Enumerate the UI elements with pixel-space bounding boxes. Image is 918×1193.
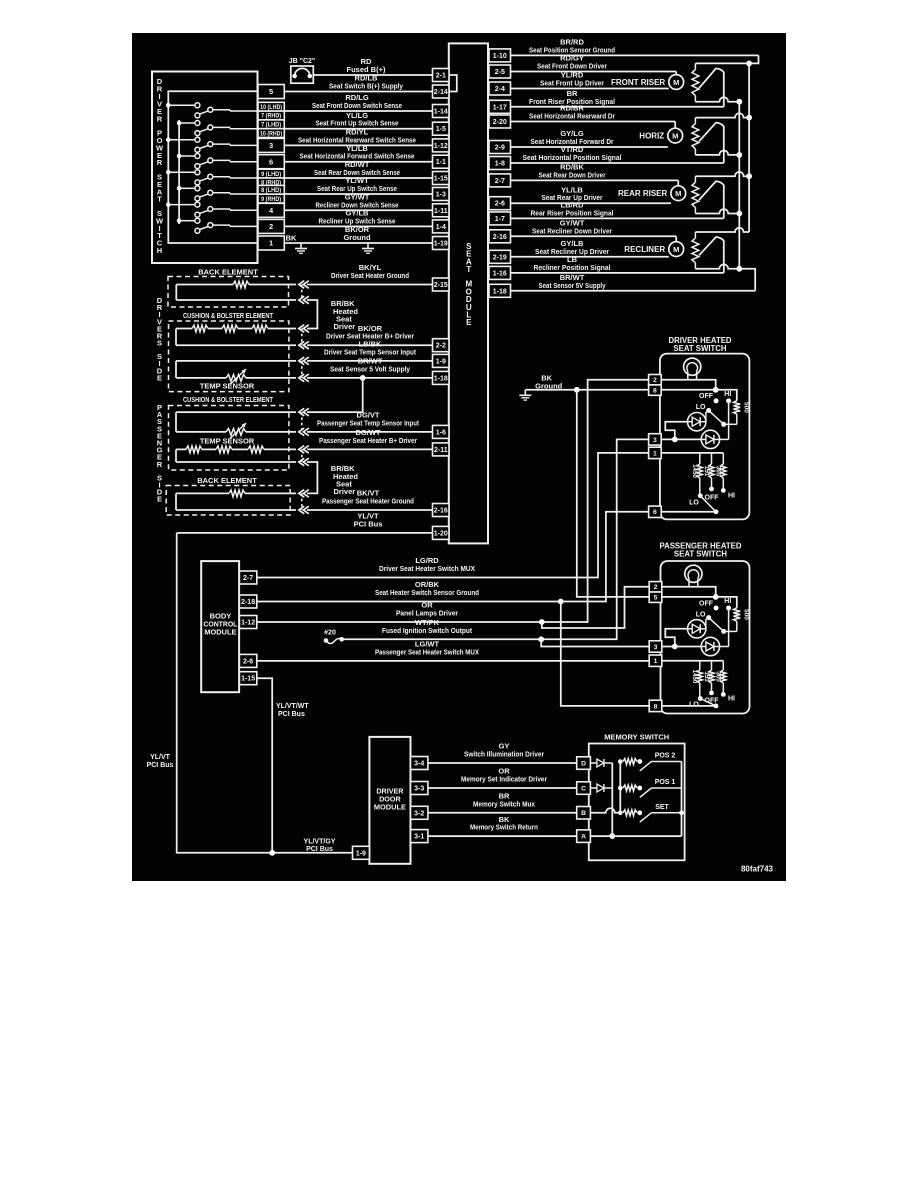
svg-text:M: M bbox=[673, 78, 679, 87]
passenger switch pin1 rail bbox=[662, 660, 724, 662]
junction sensor 5V bus bbox=[736, 99, 742, 272]
svg-text:Seat Horizontal Position Signa: Seat Horizontal Position Signal bbox=[523, 153, 622, 162]
seat module left pin 1-15 bbox=[433, 172, 450, 185]
wire RD/GY Seat Front Down Driver bbox=[511, 54, 677, 72]
svg-text:1-15: 1-15 bbox=[241, 676, 255, 683]
svg-text:Seat Front Down Driver: Seat Front Down Driver bbox=[537, 62, 607, 71]
driver back element box bbox=[168, 268, 289, 308]
switch pin 6 bbox=[258, 155, 284, 169]
passenger mux resistor 1450 bbox=[691, 661, 703, 699]
wire OR Panel Lamps Driver bbox=[257, 380, 649, 622]
connector arrows passenger back element bbox=[299, 490, 309, 498]
svg-text:Memory Set Indicator Driver: Memory Set Indicator Driver bbox=[461, 775, 547, 784]
svg-text:RECLINER: RECLINER bbox=[624, 245, 665, 254]
seat module left pin 2-1 bbox=[433, 69, 450, 82]
driver switch second LED bbox=[701, 430, 719, 448]
seat module right pin 1-8 bbox=[489, 157, 511, 170]
svg-text:1-1: 1-1 bbox=[436, 159, 446, 166]
wire YL/VT PCI bus vertical bbox=[147, 533, 353, 853]
svg-text:1: 1 bbox=[654, 658, 658, 665]
svg-text:2-20: 2-20 bbox=[493, 119, 507, 126]
passenger LED right lead bbox=[706, 618, 709, 629]
memory switch common rail bbox=[590, 762, 683, 837]
wire BR/RD Seat Position Sensor Ground bbox=[511, 38, 759, 56]
svg-text:CUSHION & BOLSTER ELEMENT: CUSHION & BOLSTER ELEMENT bbox=[183, 311, 273, 320]
wire BK ground to driver switch pin 8 bbox=[525, 389, 648, 391]
svg-text:1-5: 1-5 bbox=[436, 126, 446, 133]
svg-text:1450: 1450 bbox=[691, 670, 698, 684]
svg-text:2-6: 2-6 bbox=[495, 201, 505, 208]
svg-text:MODULE: MODULE bbox=[204, 628, 236, 637]
svg-text:E: E bbox=[157, 373, 162, 382]
svg-text:2-6: 2-6 bbox=[243, 658, 253, 665]
connector arrows passenger temp sensor bbox=[299, 408, 309, 416]
passenger switch pin8 internal wire bbox=[662, 705, 716, 707]
DDM pin 3-4 bbox=[411, 757, 428, 770]
driver door module box bbox=[369, 737, 410, 864]
wire LG/RD Driver Seat Heater Switch MUX bbox=[257, 453, 649, 578]
memory switch diode bus bbox=[611, 763, 613, 836]
motor M recliner bbox=[624, 242, 683, 257]
svg-text:2: 2 bbox=[269, 222, 273, 231]
svg-text:7 (LHD): 7 (LHD) bbox=[261, 122, 281, 129]
svg-text:Driver Seat Temp Sensor Input: Driver Seat Temp Sensor Input bbox=[324, 347, 416, 356]
svg-text:2-16: 2-16 bbox=[493, 234, 507, 241]
junction seat sensor 5V split bbox=[360, 375, 366, 381]
svg-text:Passenger Seat Heater B+ Drive: Passenger Seat Heater B+ Driver bbox=[319, 436, 417, 445]
svg-text:SEAT SWITCH: SEAT SWITCH bbox=[674, 549, 728, 558]
svg-text:HORIZ: HORIZ bbox=[639, 131, 664, 140]
svg-text:SEAT SWITCH: SEAT SWITCH bbox=[673, 344, 727, 353]
switch contact bus 2 bbox=[178, 120, 180, 224]
wire VT/RD Seat Horizontal Position Signal bbox=[511, 145, 724, 163]
svg-text:10 (LHD): 10 (LHD) bbox=[260, 104, 282, 111]
passenger switch LO indicator LED bbox=[688, 620, 706, 638]
passenger cushion and bolster element box bbox=[169, 395, 289, 470]
svg-text:1-20: 1-20 bbox=[434, 530, 448, 537]
svg-text:1-12: 1-12 bbox=[241, 620, 255, 627]
switch inner frame / B+ bus bbox=[168, 91, 258, 243]
svg-text:2-18: 2-18 bbox=[241, 599, 255, 606]
wire GY/WT Recliner Down Switch Sense bbox=[284, 193, 432, 211]
svg-text:Passenger Seat Heater Ground: Passenger Seat Heater Ground bbox=[322, 497, 414, 506]
svg-text:2: 2 bbox=[654, 584, 658, 591]
svg-text:Seat Rear Down Driver: Seat Rear Down Driver bbox=[539, 170, 606, 179]
node sensor ground feed bbox=[749, 55, 758, 63]
seat module left pin 2-16 bbox=[433, 504, 450, 517]
wire BR/WT Seat Sensor 5 Volt Supply bbox=[307, 357, 433, 378]
svg-text:2-5: 2-5 bbox=[495, 69, 505, 76]
svg-text:151: 151 bbox=[703, 466, 710, 477]
passenger back element resistor bbox=[176, 490, 296, 510]
svg-text:Panel Lamps Driver: Panel Lamps Driver bbox=[396, 609, 458, 618]
passenger switch pin 5 bbox=[649, 592, 662, 602]
svg-text:2-19: 2-19 bbox=[493, 254, 507, 261]
wire BK/YL Driver Seat Heater Ground bbox=[307, 263, 433, 284]
svg-text:Seat Sensor 5V Supply: Seat Sensor 5V Supply bbox=[539, 281, 607, 290]
svg-text:T: T bbox=[466, 265, 471, 274]
seat module box bbox=[449, 43, 488, 543]
svg-text:POS 1: POS 1 bbox=[655, 779, 676, 786]
inline connector dashes passenger temp sensor bbox=[301, 412, 303, 432]
memory switch illumination diode bbox=[590, 759, 612, 767]
seat module right pin 1-17 bbox=[489, 100, 511, 113]
svg-text:PCI Bus: PCI Bus bbox=[354, 519, 383, 528]
wire YL/RD Seat Front Up Driver bbox=[511, 71, 669, 89]
svg-text:Fused B(+): Fused B(+) bbox=[347, 65, 386, 74]
switch pin 7 (RHD) bbox=[258, 111, 284, 120]
passenger LED left lead bbox=[665, 629, 687, 647]
wire OR Memory Set Indicator Driver bbox=[428, 767, 577, 788]
switch contact group row 5 bbox=[166, 170, 258, 185]
svg-text:HI: HI bbox=[728, 696, 735, 703]
wire sensor ground to passenger pin 8 bbox=[561, 602, 649, 706]
switch pin 9 (LHD) bbox=[258, 169, 284, 178]
driver switch pin8 internal wire bbox=[661, 390, 737, 401]
svg-text:PCI Bus: PCI Bus bbox=[147, 762, 174, 769]
svg-text:9 (LHD): 9 (LHD) bbox=[261, 171, 281, 178]
svg-text:6: 6 bbox=[653, 509, 657, 516]
wire RD/BK Seat Rear Down Driver bbox=[511, 163, 679, 181]
svg-text:#20: #20 bbox=[324, 630, 336, 637]
svg-text:80faf743: 80faf743 bbox=[741, 865, 774, 874]
svg-text:C: C bbox=[581, 785, 586, 792]
wire LB/BK Driver Seat Temp Sensor Input bbox=[307, 340, 433, 361]
svg-text:Driver Seat Heater Ground: Driver Seat Heater Ground bbox=[331, 271, 409, 280]
svg-text:POS 2: POS 2 bbox=[655, 753, 676, 760]
motor M horizontal bbox=[639, 128, 682, 143]
svg-text:REAR RISER: REAR RISER bbox=[618, 189, 668, 198]
junction memory diode bus to return bbox=[609, 833, 615, 839]
inline connector dashes driver cushion element bbox=[301, 329, 303, 346]
passenger switch lamp bbox=[685, 565, 702, 587]
seat module left pin 1-6 bbox=[433, 425, 450, 438]
passenger switch pin2 internal wire bbox=[662, 587, 716, 597]
svg-text:2-7: 2-7 bbox=[495, 178, 505, 185]
svg-text:3-3: 3-3 bbox=[414, 786, 424, 793]
svg-text:Memory Switch Return: Memory Switch Return bbox=[470, 823, 538, 832]
svg-text:BACK ELEMENT: BACK ELEMENT bbox=[198, 268, 258, 277]
driver switch LO indicator LED bbox=[688, 413, 706, 431]
svg-text:LO: LO bbox=[696, 611, 706, 618]
fuse #20 bbox=[324, 630, 344, 644]
driver mux resistor 151 bbox=[703, 453, 714, 487]
svg-text:JB "C2": JB "C2" bbox=[289, 58, 315, 65]
switch contact group row 2 bbox=[177, 121, 258, 136]
wire RD/LB Seat Switch B(+) Supply bbox=[284, 74, 432, 92]
connector arrows passenger cushion element bbox=[299, 446, 309, 454]
switch pin 4 bbox=[258, 203, 284, 217]
svg-text:2-4: 2-4 bbox=[495, 86, 505, 93]
body control module box bbox=[201, 561, 239, 692]
passenger cushion element resistors bbox=[176, 446, 296, 462]
wire WT/PK Fused Ignition Switch Output bbox=[342, 439, 649, 639]
driver switch pin1 rail bbox=[661, 452, 723, 454]
junction passenger pin3 bbox=[672, 644, 678, 650]
switch contact group row 3 bbox=[166, 137, 258, 152]
seat module left pin 1-9 bbox=[433, 354, 450, 367]
svg-text:M: M bbox=[672, 131, 678, 140]
seat module name bbox=[465, 242, 472, 327]
seat module left pin 1-11 bbox=[433, 204, 450, 217]
connector arrows driver back element bbox=[299, 281, 309, 289]
seat module right pin 1-18 bbox=[489, 284, 511, 297]
svg-text:1-19: 1-19 bbox=[434, 241, 448, 248]
seat module left pin 1-12 bbox=[433, 139, 450, 152]
svg-text:Seat Heater Switch Sensor Grou: Seat Heater Switch Sensor Ground bbox=[375, 588, 479, 597]
svg-text:8: 8 bbox=[654, 703, 658, 710]
svg-text:1-15: 1-15 bbox=[434, 176, 448, 183]
seat module right pin 1-16 bbox=[489, 266, 511, 279]
switch pin 10 (RHD) bbox=[258, 129, 284, 138]
driver power seat switch enclosure bbox=[152, 72, 258, 264]
switch pin 1 bbox=[258, 236, 284, 250]
inline connector dashes driver back element bbox=[301, 285, 303, 301]
driver switch pin6 internal wire bbox=[661, 511, 716, 513]
wire panel lamps to passenger pin 2 bbox=[542, 587, 649, 628]
svg-text:Driver: Driver bbox=[334, 322, 356, 331]
svg-text:151: 151 bbox=[703, 671, 710, 682]
switch pin 8 (RHD) bbox=[258, 178, 284, 187]
svg-text:E: E bbox=[157, 495, 162, 504]
svg-text:1: 1 bbox=[269, 239, 273, 248]
driver LED right lead bbox=[706, 411, 709, 422]
svg-text:8 (LHD): 8 (LHD) bbox=[261, 187, 281, 194]
svg-text:MEMORY SWITCH: MEMORY SWITCH bbox=[604, 733, 669, 742]
driver switch pin 8 bbox=[649, 385, 662, 395]
position sensor rear riser bbox=[692, 172, 749, 219]
svg-text:Seat Switch B(+) Supply: Seat Switch B(+) Supply bbox=[329, 82, 404, 91]
switch contact group row 6 bbox=[177, 186, 258, 201]
DDM pin 1-9 bbox=[353, 846, 370, 859]
svg-text:B: B bbox=[581, 810, 586, 817]
svg-text:2-15: 2-15 bbox=[434, 282, 448, 289]
wire YL/LB Seat Horizontal Forward Switch Sense bbox=[284, 144, 432, 162]
seat module left pin 2-15 bbox=[433, 278, 450, 291]
svg-text:2-2: 2-2 bbox=[436, 343, 446, 350]
fuse JB C2 bbox=[289, 58, 315, 83]
svg-text:YL/VT/GY: YL/VT/GY bbox=[304, 839, 336, 846]
seat module right pin 2-4 bbox=[489, 82, 511, 95]
svg-text:1-6: 1-6 bbox=[436, 429, 446, 436]
svg-text:500: 500 bbox=[743, 609, 750, 620]
wire fused ignition to passenger pin 3 bbox=[541, 639, 649, 646]
switch contact group row 4 bbox=[177, 154, 258, 169]
svg-text:3-1: 3-1 bbox=[414, 834, 424, 841]
wire sensor ground bus bbox=[748, 63, 750, 232]
memory switch pin D bbox=[577, 757, 591, 770]
svg-text:3-4: 3-4 bbox=[414, 761, 424, 768]
svg-text:D: D bbox=[581, 760, 586, 767]
svg-text:BACK ELEMENT: BACK ELEMENT bbox=[197, 476, 257, 485]
wire BK/VT Passenger Seat Heater Ground bbox=[307, 489, 433, 510]
svg-text:1-17: 1-17 bbox=[493, 104, 507, 111]
svg-text:1450: 1450 bbox=[691, 464, 698, 478]
svg-text:3: 3 bbox=[653, 437, 657, 444]
wire GY/LB Recliner Up Switch Sense bbox=[284, 209, 432, 227]
DDM pin 3-2 bbox=[411, 806, 428, 819]
passenger second LED output bbox=[720, 646, 729, 648]
DDM pin 3-1 bbox=[411, 830, 428, 843]
svg-text:E: E bbox=[466, 318, 472, 327]
driver mux switch contacts bbox=[689, 487, 735, 515]
svg-text:LO: LO bbox=[689, 500, 699, 507]
svg-text:1-16: 1-16 bbox=[493, 270, 507, 277]
svg-text:3: 3 bbox=[269, 141, 273, 150]
wire DG/WT Passenger Seat Heater B+ Driver bbox=[307, 428, 433, 449]
memory switch pin C bbox=[577, 782, 591, 795]
svg-text:Passenger Seat Heater Switch M: Passenger Seat Heater Switch MUX bbox=[375, 647, 479, 656]
passenger heat switch contacts bbox=[696, 598, 737, 646]
driver switch pin 1 bbox=[649, 447, 662, 458]
BCM pin 2-6 bbox=[239, 654, 256, 667]
seat module right pin 1-10 bbox=[489, 49, 511, 62]
wire RD/YL Seat Horizontal Rearward Switch Sense bbox=[284, 128, 432, 146]
wire sensor 5V bus bbox=[738, 102, 740, 269]
wire LB/RD Rear Riser Position Signal bbox=[511, 201, 724, 219]
wire RD Fused B(+) bbox=[314, 57, 433, 75]
wire LG/WT Passenger Seat Heater Switch MUX bbox=[257, 640, 649, 661]
svg-text:1-7: 1-7 bbox=[495, 216, 505, 223]
passenger mux resistor 365 bbox=[715, 661, 726, 692]
driver mux resistor 1450 bbox=[691, 453, 703, 496]
wire sensor 5V feed bbox=[739, 269, 755, 291]
switch contact group row 8 bbox=[177, 218, 258, 233]
wire ground to passenger switch pin 5 bbox=[577, 390, 649, 597]
wire recliner motor drop bbox=[675, 236, 677, 242]
svg-text:Ground: Ground bbox=[343, 233, 370, 242]
driver heat switch resistor 500 bbox=[733, 401, 749, 425]
junction ground to passenger switch bbox=[574, 387, 580, 393]
svg-text:BK: BK bbox=[286, 234, 297, 243]
passenger switch pin 1 bbox=[649, 655, 662, 666]
svg-text:YL/VT: YL/VT bbox=[150, 754, 171, 761]
switch pin 8 (LHD) bbox=[258, 185, 284, 194]
svg-text:Driver: Driver bbox=[334, 487, 356, 496]
svg-text:2-7: 2-7 bbox=[243, 575, 253, 582]
svg-text:1-4: 1-4 bbox=[436, 224, 446, 231]
switch pin 5 bbox=[258, 85, 284, 99]
wire OR/BK Seat Heater Switch Sensor Ground bbox=[257, 512, 649, 602]
motor M front riser bbox=[611, 75, 684, 90]
switch pin 9 (RHD) bbox=[258, 194, 284, 203]
svg-text:HI: HI bbox=[728, 493, 735, 500]
svg-text:OFF: OFF bbox=[699, 393, 714, 400]
wire GY/LB Seat Recliner Up Driver bbox=[511, 239, 669, 257]
wire front riser motor drop bbox=[675, 72, 677, 76]
driver heat switch contacts bbox=[696, 391, 737, 439]
svg-text:M: M bbox=[675, 189, 681, 198]
wire BR Memory Switch Mux bbox=[428, 792, 577, 813]
svg-text:1-18: 1-18 bbox=[493, 288, 507, 295]
driver cushion element resistors bbox=[176, 325, 296, 345]
svg-text:1: 1 bbox=[653, 450, 657, 457]
svg-text:R: R bbox=[157, 114, 163, 123]
seat module right pin 2-7 bbox=[489, 174, 511, 187]
memory POS 1 resistor and switch bbox=[623, 779, 682, 798]
wire BK Memory Switch Return bbox=[428, 815, 577, 836]
driver mux resistor 365 bbox=[715, 453, 726, 488]
wire RD/LG Seat Front Down Switch Sense bbox=[284, 93, 432, 111]
passenger mux switch contacts bbox=[689, 691, 735, 709]
passenger temp sensor bbox=[176, 412, 296, 445]
svg-text:HI: HI bbox=[724, 598, 731, 605]
driver switch pin3 internal wire bbox=[661, 438, 701, 440]
driver switch pin 3 bbox=[649, 434, 662, 445]
svg-text:OFF: OFF bbox=[705, 495, 720, 502]
label drivers side bbox=[157, 296, 163, 382]
seat module left pin 1-20 bbox=[433, 526, 450, 539]
svg-text:TEMP SENSOR: TEMP SENSOR bbox=[200, 437, 255, 446]
wire BR Front Riser Position Signal bbox=[511, 89, 724, 107]
svg-text:Switch Illumination Driver: Switch Illumination Driver bbox=[464, 750, 544, 759]
switch pin 2 bbox=[258, 219, 284, 233]
memory switch pin A bbox=[577, 830, 591, 843]
junction fused ignition to passenger bbox=[538, 636, 544, 642]
junction passenger lamp return bbox=[713, 594, 719, 600]
svg-text:Seat Front Down Switch Sense: Seat Front Down Switch Sense bbox=[312, 101, 402, 110]
svg-text:2-16: 2-16 bbox=[434, 508, 448, 515]
svg-text:6: 6 bbox=[269, 157, 273, 166]
seat module right pin 2-6 bbox=[489, 197, 511, 210]
junction sensor ground to passenger bbox=[558, 599, 564, 605]
svg-text:1-14: 1-14 bbox=[434, 109, 448, 116]
svg-text:Memory Switch Mux: Memory Switch Mux bbox=[473, 799, 536, 808]
memory resistor bus bbox=[619, 762, 621, 813]
position sensor recliner bbox=[692, 228, 749, 273]
driver switch pin2 internal wire bbox=[661, 380, 716, 390]
svg-text:2-11: 2-11 bbox=[434, 447, 448, 454]
wire 5V supply to passenger temp sensor bbox=[307, 378, 363, 412]
svg-text:1-3: 1-3 bbox=[436, 192, 446, 199]
driver temp sensor bbox=[176, 361, 296, 391]
svg-text:Seat Horizontal Rearward Dr: Seat Horizontal Rearward Dr bbox=[529, 112, 615, 121]
wire RD/WT Seat Rear Down Switch Sense bbox=[284, 160, 432, 178]
svg-text:365: 365 bbox=[715, 671, 722, 682]
svg-text:PCI Bus: PCI Bus bbox=[306, 846, 333, 853]
position sensor front riser bbox=[692, 63, 749, 106]
svg-text:365: 365 bbox=[715, 466, 722, 477]
BCM pin 1-15 bbox=[239, 672, 256, 685]
svg-text:1-9: 1-9 bbox=[356, 850, 366, 857]
BCM pin 2-7 bbox=[239, 571, 256, 584]
seat module left pin 1-1 bbox=[433, 155, 450, 168]
connector arrows driver temp sensor bbox=[299, 357, 309, 365]
svg-text:3: 3 bbox=[654, 644, 658, 651]
svg-text:R: R bbox=[157, 158, 163, 167]
passenger mux resistor 151 bbox=[703, 661, 714, 691]
svg-text:TEMP SENSOR: TEMP SENSOR bbox=[200, 382, 255, 391]
wire GY/WT Seat Recliner Down Driver bbox=[511, 219, 677, 237]
passenger heated seat switch enclosure bbox=[659, 542, 749, 714]
svg-text:8: 8 bbox=[653, 388, 657, 395]
wire rear riser motor drop bbox=[677, 180, 679, 186]
seat module right pin 2-19 bbox=[489, 250, 511, 263]
label passenger side bbox=[157, 403, 163, 504]
svg-text:H: H bbox=[157, 246, 162, 255]
driver heated seat switch enclosure bbox=[660, 336, 750, 519]
svg-text:CUSHION & BOLSTER ELEMENT: CUSHION & BOLSTER ELEMENT bbox=[183, 395, 273, 404]
wire BR/BK heated seat driver jog bbox=[307, 299, 358, 331]
svg-text:Recliner Position Signal: Recliner Position Signal bbox=[534, 263, 611, 272]
BCM pin 2-18 bbox=[239, 595, 256, 608]
passenger switch pin5 internal wire bbox=[662, 597, 737, 608]
inline connector dashes driver temp sensor bbox=[301, 361, 303, 378]
svg-text:LO: LO bbox=[696, 404, 706, 411]
ground at seat module bbox=[362, 243, 374, 253]
svg-text:Recliner Up Switch Sense: Recliner Up Switch Sense bbox=[319, 216, 396, 225]
seat module right pin 2-5 bbox=[489, 65, 511, 78]
